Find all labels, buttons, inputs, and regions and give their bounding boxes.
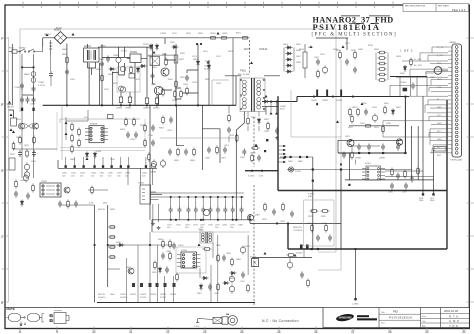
svg-text:20: 20 <box>462 330 466 334</box>
wire vert x112 <box>112 72 114 106</box>
legend symbol S1 transistor outline <box>7 314 26 322</box>
relay box JW851 <box>434 147 446 152</box>
svg-text:10D471: 10D471 <box>7 106 15 108</box>
wire opto row <box>252 257 312 259</box>
standby IC803 <box>177 252 201 268</box>
switch SW801a <box>19 49 26 52</box>
capacitor C802 <box>100 61 104 68</box>
svg-text:T801: T801 <box>240 69 246 73</box>
capacitor CY802 <box>32 86 36 93</box>
testpoint arrow <box>65 132 68 135</box>
capacitor C854 <box>364 109 368 116</box>
svg-text:GND: GND <box>110 294 115 296</box>
testpoint arrow <box>10 128 13 131</box>
wire fb left vert <box>348 153 350 180</box>
resistor R873 <box>382 125 385 134</box>
resistor R813 <box>251 147 260 150</box>
switch SW801b <box>28 49 35 52</box>
scattered ref labels <box>10 28 435 270</box>
electrolytic CE801 <box>119 86 124 91</box>
wire bundle to connector <box>383 47 448 153</box>
diode D868 <box>230 271 237 274</box>
svg-text:CB803: CB803 <box>143 108 150 110</box>
opto PC851 <box>252 259 259 267</box>
wire down <box>290 249 304 261</box>
fuse F801 <box>9 50 20 53</box>
electrolytic CE870 <box>203 209 209 215</box>
node pair <box>196 43 202 45</box>
svg-text:VCC: VCC <box>84 117 89 119</box>
svg-text:REMOTE: REMOTE <box>293 227 302 229</box>
connector pin stubs <box>448 47 452 153</box>
svg-text:0.5R: 0.5R <box>259 176 264 178</box>
capacitor C853 <box>275 128 279 135</box>
svg-text:(B+): (B+) <box>204 69 208 71</box>
capacitor CE881 <box>357 144 361 151</box>
IC802 <box>40 183 61 197</box>
jumper on rail 2 <box>220 37 229 40</box>
transistor Q831 <box>19 123 25 129</box>
dark caps on boundary <box>300 245 309 250</box>
wire transformer top feed <box>225 76 280 106</box>
L-GND terminal <box>352 298 359 306</box>
svg-text:CB801: CB801 <box>116 108 123 110</box>
stub <box>108 268 120 270</box>
wire 12V bus <box>338 152 405 154</box>
svg-text:CX801: CX801 <box>38 82 45 84</box>
resistor R882 <box>162 116 165 125</box>
wire q801 gate <box>153 84 182 99</box>
svg-text:470/25: 470/25 <box>160 297 167 299</box>
wire gate row <box>13 148 57 150</box>
testpoint arrow <box>153 51 156 54</box>
wire cx lead <box>50 55 52 86</box>
capacitor C857 <box>342 152 346 159</box>
testpoint arrow <box>294 254 297 257</box>
electrolytic CE861 <box>240 246 245 255</box>
wire c802 drop <box>101 44 103 105</box>
resistor R831 <box>11 118 17 126</box>
resistor R843 <box>125 118 128 127</box>
resistor R855 <box>384 106 387 115</box>
wire secondary out <box>265 101 272 103</box>
section gray corner <box>291 90 341 137</box>
diode Dc <box>172 45 179 48</box>
svg-text:R.T.K: R.T.K <box>449 314 459 318</box>
capacitor C889 <box>328 235 332 242</box>
svg-text:CB851: CB851 <box>311 100 318 102</box>
svg-text:TH802: TH802 <box>95 69 102 71</box>
capacitor C882 <box>165 267 169 274</box>
svg-text:R812: R812 <box>229 135 235 137</box>
svg-text:Chk: Chk <box>422 321 426 323</box>
power resistor R814 <box>303 44 307 78</box>
resistor R810 <box>174 90 177 99</box>
resistor R863 <box>169 252 172 261</box>
svg-text:12: 12 <box>166 330 170 334</box>
svg-text:CB802: CB802 <box>125 108 132 110</box>
transistor Q833 <box>64 187 70 193</box>
wire det vert B <box>417 126 419 180</box>
wire bus y164 right <box>245 170 278 172</box>
svg-text:PC851: PC851 <box>295 171 302 173</box>
svg-text:IC803: IC803 <box>181 250 188 252</box>
svg-text:D805: D805 <box>283 44 289 46</box>
resistor R812 <box>236 134 239 143</box>
fuse circle F802 <box>434 67 442 75</box>
wire lgnd drop <box>355 249 357 298</box>
vcc rail pair <box>151 193 245 197</box>
wire cap top rail <box>338 139 402 141</box>
capacitor C839 <box>58 201 62 208</box>
protection sub-box <box>304 200 334 246</box>
power resistor R837 <box>9 158 15 170</box>
resistor R838 <box>71 123 74 132</box>
wire relay mesh <box>112 47 198 105</box>
svg-text:R813: R813 <box>251 153 257 155</box>
capacitor C808 <box>345 59 349 66</box>
resistor R839 <box>71 134 74 143</box>
diode D864 <box>20 200 23 207</box>
resistor R892 <box>217 283 220 292</box>
svg-text:IC801: IC801 <box>96 151 102 153</box>
capacitor C836 <box>151 125 155 132</box>
svg-text:19: 19 <box>425 330 429 334</box>
capacitor C883 <box>222 255 226 262</box>
electrolytic CE831 <box>24 163 29 172</box>
diode D862 <box>202 276 209 279</box>
revision box top right <box>403 4 469 12</box>
testpoint arrow <box>72 33 75 36</box>
wire lf out <box>88 44 153 75</box>
line filter LF801 <box>84 48 100 62</box>
secondary thick boundary box <box>278 96 447 249</box>
bridge rectifier BD801 <box>54 32 67 44</box>
resistor R816 <box>339 51 342 60</box>
opto drive row <box>280 156 313 163</box>
wire ic left <box>66 110 88 140</box>
transformer T801 <box>240 78 265 112</box>
snubber cluster <box>251 154 254 163</box>
testpoint arrow <box>361 102 364 105</box>
svg-text:C806: C806 <box>183 84 189 86</box>
svg-text:18: 18 <box>388 330 392 334</box>
wire sb5v drop A <box>94 205 96 303</box>
capacitor C886 <box>390 183 394 190</box>
wire cn vert A <box>422 96 424 190</box>
svg-text:17: 17 <box>351 330 355 334</box>
svg-text:CE872: CE872 <box>130 294 137 296</box>
resistor R865 <box>217 254 220 263</box>
resistor R885 <box>216 146 219 155</box>
resistor R832 <box>12 142 15 151</box>
svg-text:9: 9 <box>56 330 58 334</box>
svg-text:C.M.K: C.M.K <box>449 319 460 323</box>
svg-text:Dwn: Dwn <box>422 316 426 318</box>
wire sense A <box>60 119 140 123</box>
svg-text:IC803: IC803 <box>178 245 184 247</box>
section boundary gray box <box>9 29 341 302</box>
transistor Q861 <box>128 268 134 274</box>
svg-text:PEI: PEI <box>393 309 398 313</box>
svg-text:SB3.3V: SB3.3V <box>98 294 105 296</box>
svg-text:[PFC & MULTI SECTION]: [PFC & MULTI SECTION] <box>312 33 398 38</box>
testpoint arrow <box>265 95 268 98</box>
resistor R849 <box>67 200 70 209</box>
legend strip <box>5 308 323 324</box>
resistor R850 <box>91 186 94 195</box>
wire left bus <box>43 104 236 106</box>
svg-text:R817: R817 <box>351 50 357 52</box>
capacitor C834 <box>126 132 130 139</box>
capacitor C890 <box>272 209 276 216</box>
svg-text:16: 16 <box>314 330 318 334</box>
title text block <box>312 16 414 53</box>
resistor R805 <box>162 88 165 97</box>
resistor R842 <box>78 139 81 148</box>
wire standby top bus <box>152 219 252 221</box>
capacitor C897 <box>223 147 227 154</box>
junction dots remote <box>276 223 289 225</box>
bulk cap CE852b <box>326 90 328 97</box>
resistor R879 <box>264 203 267 212</box>
svg-text:LF802: LF802 <box>100 46 107 48</box>
wire vert x347 stub <box>346 38 348 50</box>
capacitor CE884b <box>396 144 400 151</box>
svg-text:RT801: RT801 <box>143 44 150 46</box>
wire bus y164 left <box>58 160 157 168</box>
gnd stub B below box <box>430 191 435 203</box>
svg-text:R810: R810 <box>172 100 178 102</box>
wire switch to bridge <box>35 38 43 52</box>
capacitor CY801 <box>20 83 24 90</box>
resistor R871 <box>15 180 18 189</box>
dark node <box>266 139 268 141</box>
wire switch drops <box>22 54 34 105</box>
svg-text:GBU8J: GBU8J <box>44 34 50 36</box>
film cap CB803 <box>145 94 148 105</box>
svg-text:(2A): (2A) <box>308 195 312 198</box>
resistor R809 <box>186 87 189 96</box>
diode D867 <box>199 284 202 291</box>
output caps dark row <box>132 283 176 287</box>
svg-text:CY801: CY801 <box>14 87 21 89</box>
svg-text:1.25-4: 1.25-4 <box>194 326 199 328</box>
diode D809 <box>403 65 406 72</box>
diode Db <box>155 44 158 51</box>
resistor ladder R820-R825 <box>376 51 388 81</box>
resistor R852 <box>267 122 270 131</box>
capacitor C801 <box>65 69 69 76</box>
cap row on gnd bus <box>65 157 156 185</box>
wire vert x176 <box>176 44 184 146</box>
relay RY801 <box>130 54 141 63</box>
wire bus y115 <box>262 106 278 108</box>
svg-text:JP802: JP802 <box>222 33 229 35</box>
svg-text:REV DATE: REV DATE <box>438 5 449 8</box>
svg-text:S-GND: S-GND <box>296 253 303 255</box>
resistor R872 <box>364 125 373 128</box>
wire sb mid rail <box>152 231 250 233</box>
svg-text:15: 15 <box>277 330 281 334</box>
svg-text:C807: C807 <box>314 57 320 59</box>
svg-text:AC_DET: AC_DET <box>414 64 423 67</box>
resistor R848 <box>32 184 35 193</box>
resistor R884 <box>193 148 196 157</box>
pin net labels <box>437 47 444 157</box>
PFC controller IC801 <box>85 126 108 143</box>
svg-text:PSIV181E01A: PSIV181E01A <box>313 22 381 32</box>
stub arrows below bus <box>271 102 277 113</box>
remote labels <box>255 215 304 255</box>
inner wires <box>108 232 248 303</box>
node squares <box>311 152 407 250</box>
capacitor C892 <box>242 149 246 156</box>
svg-text:JP801: JP801 <box>210 33 217 35</box>
svg-text:CONTROL: CONTROL <box>293 230 304 232</box>
wire t801 aux <box>229 105 259 142</box>
resistor R807 on x176 <box>174 55 178 63</box>
capacitor C890b <box>290 211 294 218</box>
resistor R844 <box>133 118 136 127</box>
wire sec top lead <box>265 107 267 115</box>
testpoint arrow <box>46 33 49 36</box>
capacitor C809 <box>353 67 357 74</box>
capacitor C884 <box>300 272 304 279</box>
svg-text:1000/10: 1000/10 <box>120 297 128 299</box>
svg-text:PSIV181E01A: PSIV181E01A <box>389 316 413 320</box>
diode D861 <box>158 267 161 274</box>
sense lines light <box>60 80 229 160</box>
gnd stub A below box <box>419 191 424 203</box>
resistor R864 <box>176 273 179 282</box>
svg-text:D809: D809 <box>396 56 402 58</box>
resistor R856 <box>391 168 394 177</box>
svg-text:450V: 450V <box>280 109 285 111</box>
svg-text:EEL-25 MR: EEL-25 MR <box>238 74 250 76</box>
wire AC top rail <box>67 37 348 39</box>
diode D804 <box>207 64 210 71</box>
diode stack D805-D808 <box>283 44 294 73</box>
aux connector CN802 <box>140 185 162 222</box>
svg-text:CE875: CE875 <box>160 294 167 296</box>
capacitor C855 <box>396 173 400 180</box>
svg-text:R802: R802 <box>62 54 68 56</box>
box pin stubs <box>278 146 286 162</box>
junction dots on rails <box>170 196 243 221</box>
wire sense B <box>61 105 63 160</box>
svg-text:2.2K: 2.2K <box>322 223 327 225</box>
wire left drops low <box>22 105 34 178</box>
wire relay top <box>102 56 130 58</box>
standby sub box <box>176 247 206 273</box>
wire aux rail <box>160 137 235 139</box>
film cap CB802 <box>128 92 131 105</box>
capacitor C891 <box>227 127 231 134</box>
diode D851 <box>263 100 270 103</box>
svg-text:SB3.3V: SB3.3V <box>98 209 105 211</box>
sub box lines <box>57 112 145 151</box>
svg-text:Page 1 of 2: Page 1 of 2 <box>452 8 466 12</box>
bulk cap CE853 <box>340 90 342 97</box>
capacitor C807 <box>316 59 320 66</box>
svg-text:SW801: SW801 <box>19 48 27 50</box>
svg-text:RY801: RY801 <box>121 51 128 53</box>
wire cn vert B <box>433 150 435 191</box>
wire det vert A <box>411 126 413 180</box>
svg-text:SAMSUNG: SAMSUNG <box>339 316 352 320</box>
capacitor CE882 <box>367 144 371 151</box>
svg-text:Y.P.K: Y.P.K <box>449 324 458 328</box>
svg-text:GND: GND <box>430 200 435 202</box>
svg-text:GND: GND <box>437 79 442 81</box>
X-cap box CX802 <box>150 57 160 66</box>
wire bus corner <box>337 140 339 153</box>
wire varistor rail <box>22 66 34 68</box>
svg-text:10: 10 <box>92 330 96 334</box>
wire primary return <box>236 112 244 220</box>
dark caps below bus <box>21 108 35 111</box>
svg-text:N.C : No Connection: N.C : No Connection <box>262 319 299 323</box>
wire sense C <box>212 80 229 105</box>
resistor R847 <box>148 153 151 162</box>
wire prot vert B <box>340 170 342 250</box>
resistor R878 <box>325 224 328 233</box>
resistor R867 <box>287 254 296 257</box>
diode D832 <box>93 152 96 159</box>
electrolytic CE832 <box>24 170 29 179</box>
resistor on drop A <box>108 226 116 259</box>
svg-text:M5V: M5V <box>103 203 108 205</box>
resistor R859 <box>351 151 354 160</box>
svg-text:0.1/275: 0.1/275 <box>38 85 46 87</box>
wire vert x209 <box>208 60 210 105</box>
svg-text:2.2K: 2.2K <box>307 223 312 225</box>
svg-text:R806: R806 <box>162 54 168 56</box>
wire vert x89 <box>88 63 90 105</box>
testpoint arrow <box>12 130 15 133</box>
svg-text:Q801: Q801 <box>151 84 157 86</box>
resistor R802 <box>66 56 69 65</box>
capacitor C899 <box>172 243 176 250</box>
screw lug pictogram <box>196 316 237 326</box>
resistor R826 <box>410 58 413 67</box>
standby transformer T802 <box>200 232 213 243</box>
fuse symbol mid <box>49 40 52 55</box>
diode D801 <box>109 67 116 70</box>
transistor Q801b <box>161 68 169 76</box>
svg-text:CE883: CE883 <box>150 172 157 174</box>
electrolytic CE878 <box>229 285 234 294</box>
svg-text:CE876: CE876 <box>170 294 177 296</box>
svg-text:IC851: IC851 <box>365 163 372 165</box>
HOT / COLD dashed boundary <box>250 40 255 305</box>
resistor R875 <box>310 210 319 213</box>
legend S3 circles <box>49 314 51 321</box>
svg-text:RY801: RY801 <box>130 51 138 54</box>
varistor VA801 <box>31 72 36 77</box>
wire vert x150 long <box>149 168 151 220</box>
capacitor C835 <box>134 132 138 139</box>
capacitor C893 <box>169 117 173 124</box>
resistor R868 <box>307 279 310 288</box>
svg-text:GND: GND <box>419 200 424 202</box>
cap C817 <box>129 74 135 79</box>
opto LED PC851b <box>288 167 293 172</box>
svg-text:COLD: COLD <box>259 47 268 51</box>
connector CN801 <box>452 44 462 157</box>
svg-text:11: 11 <box>129 330 133 334</box>
